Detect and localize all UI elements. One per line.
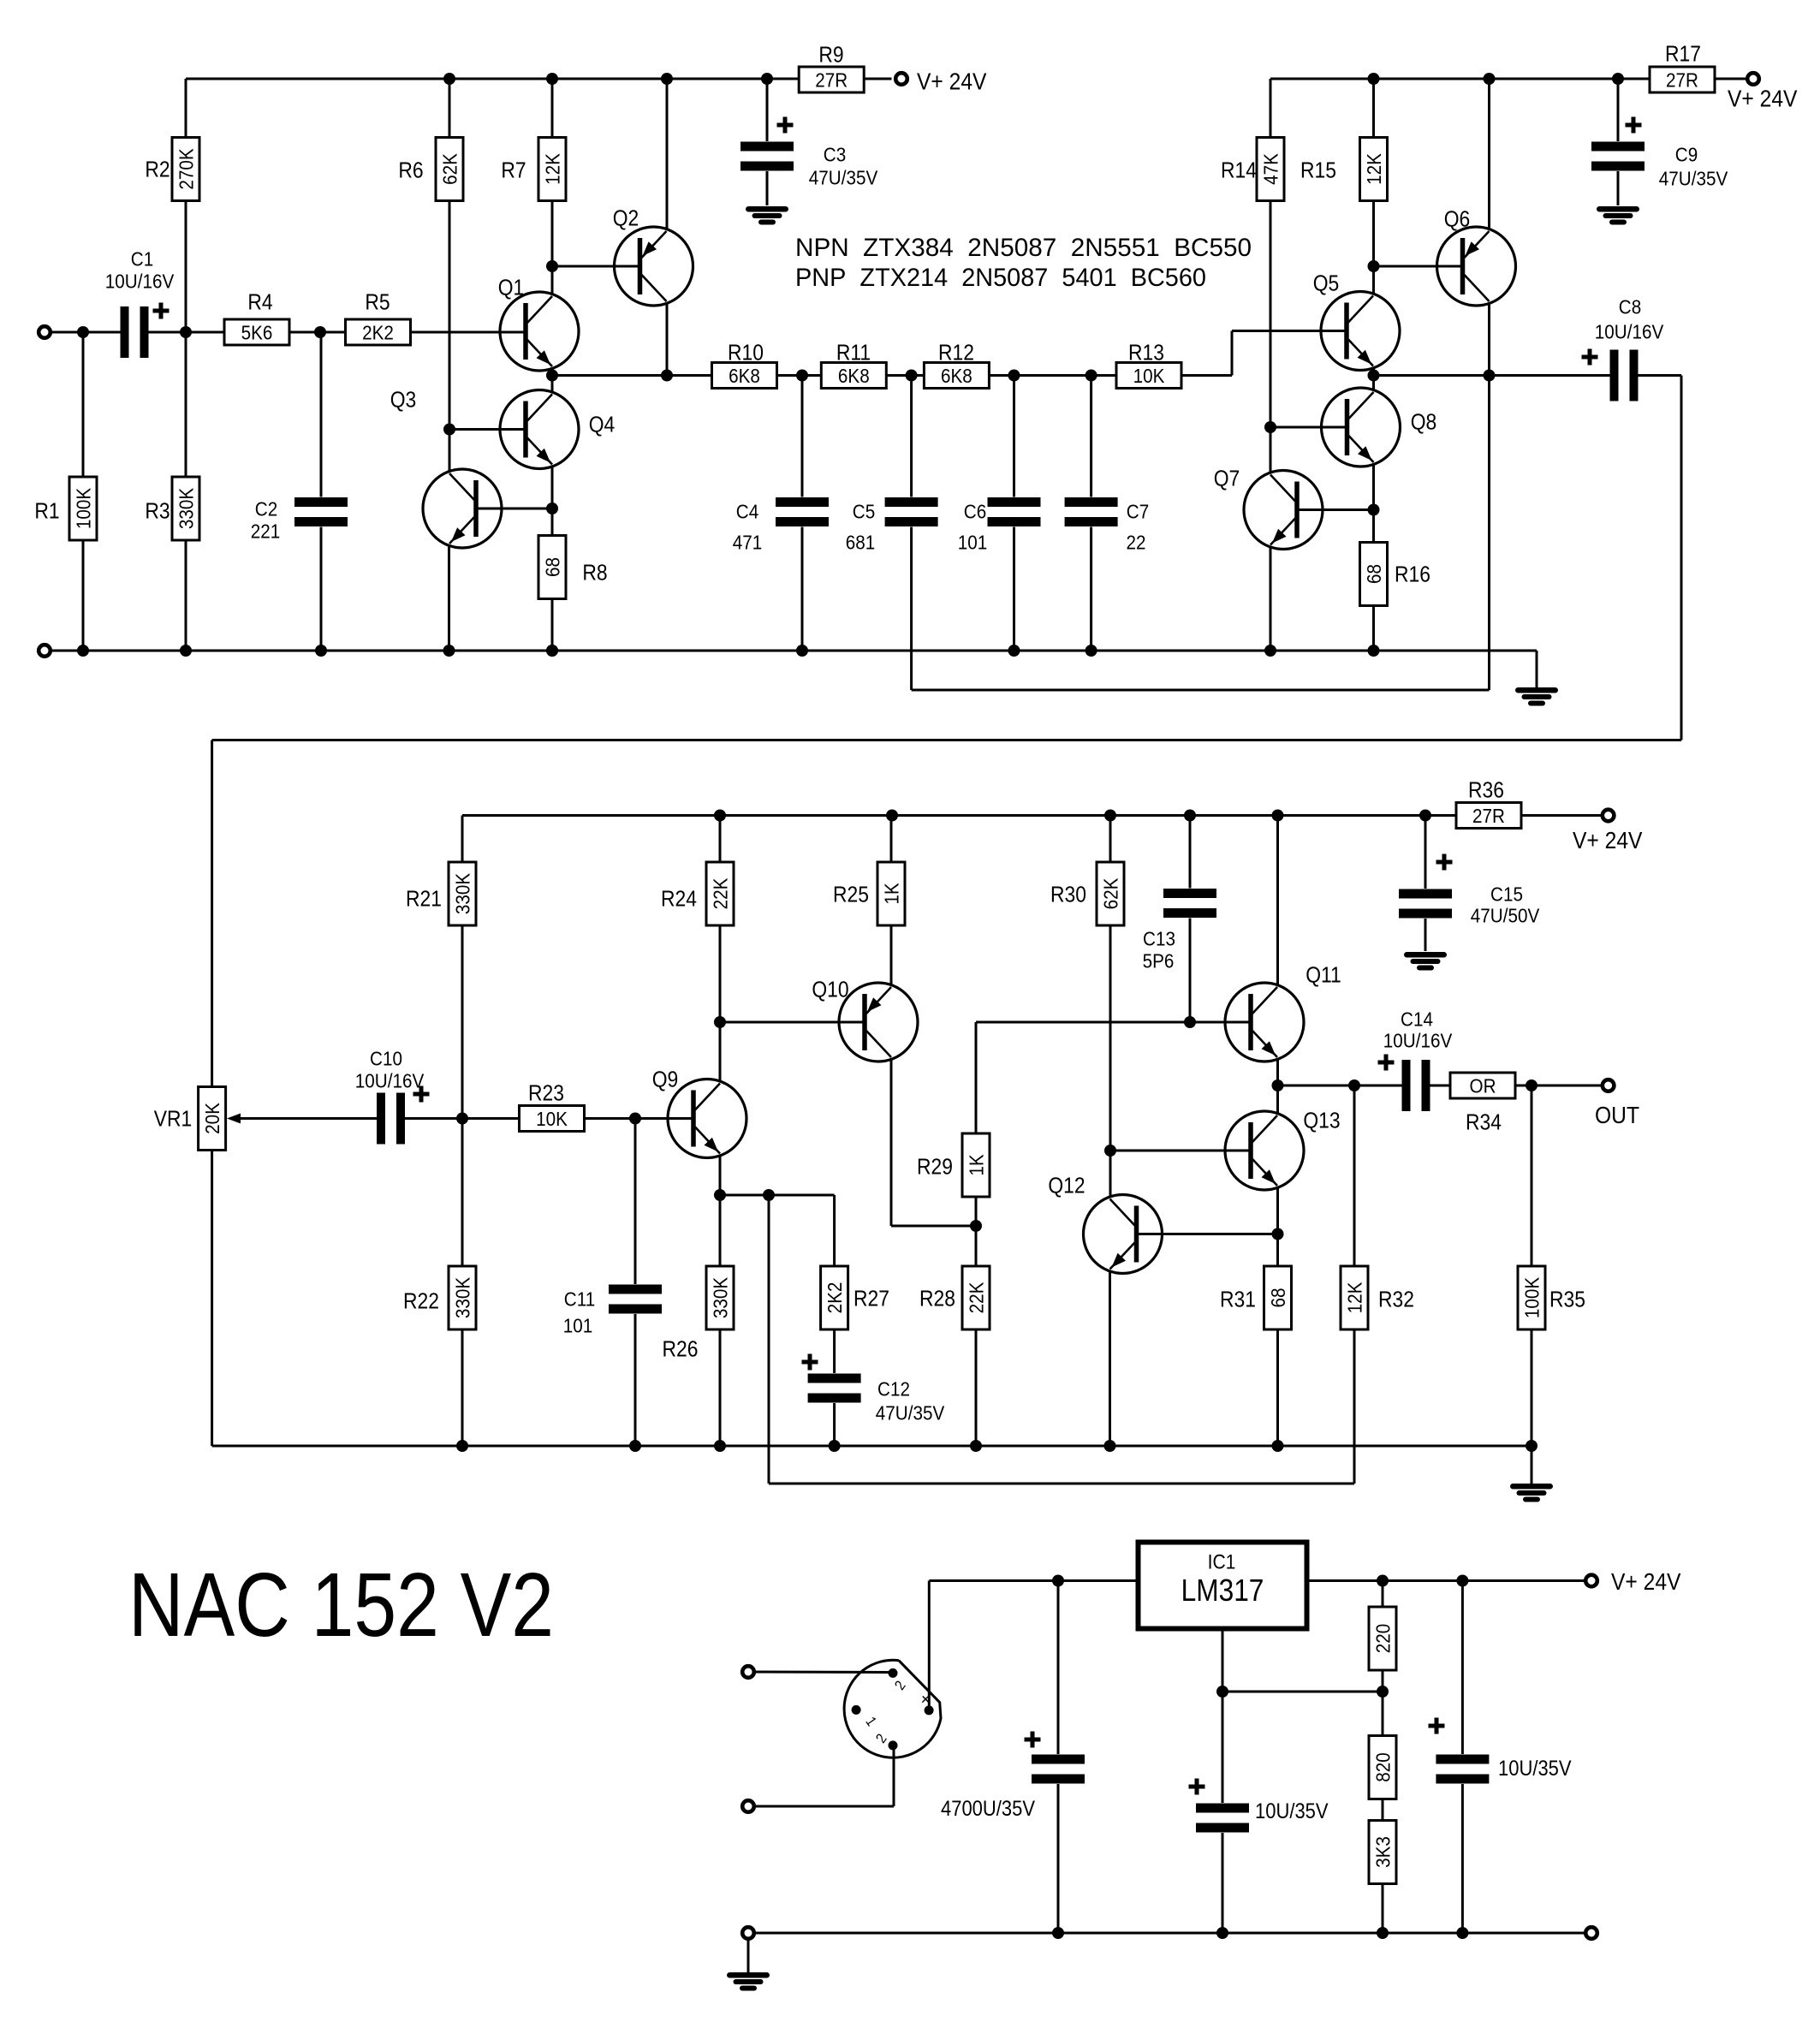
svg-text:R28: R28 bbox=[919, 1287, 955, 1311]
svg-text:47U/35V: 47U/35V bbox=[1659, 167, 1728, 190]
svg-text:C4: C4 bbox=[736, 500, 758, 523]
svg-text:C11: C11 bbox=[564, 1288, 595, 1311]
svg-text:R15: R15 bbox=[1300, 158, 1336, 183]
svg-text:47U/35V: 47U/35V bbox=[876, 1401, 945, 1424]
svg-text:Q7: Q7 bbox=[1214, 467, 1240, 491]
svg-text:C5: C5 bbox=[853, 500, 875, 523]
svg-text:5P6: 5P6 bbox=[1143, 949, 1175, 972]
svg-text:Q2: Q2 bbox=[613, 206, 639, 231]
svg-text:R32: R32 bbox=[1378, 1288, 1414, 1312]
svg-text:R31: R31 bbox=[1220, 1288, 1256, 1312]
svg-text:22K: 22K bbox=[965, 1282, 988, 1313]
svg-text:VR1: VR1 bbox=[154, 1107, 192, 1132]
svg-text:Q6: Q6 bbox=[1444, 207, 1471, 232]
svg-text:R3: R3 bbox=[145, 499, 170, 524]
svg-text:C13: C13 bbox=[1143, 927, 1175, 950]
svg-text:R2: R2 bbox=[145, 158, 170, 182]
svg-text:R30: R30 bbox=[1050, 883, 1086, 907]
svg-text:27R: 27R bbox=[1472, 805, 1505, 828]
svg-text:R1: R1 bbox=[34, 499, 59, 524]
svg-text:C14: C14 bbox=[1401, 1008, 1433, 1031]
svg-text:C8: C8 bbox=[1619, 295, 1641, 318]
svg-text:101: 101 bbox=[563, 1314, 592, 1337]
svg-text:C2: C2 bbox=[255, 497, 277, 520]
svg-text:LM317: LM317 bbox=[1181, 1573, 1264, 1608]
svg-text:6K8: 6K8 bbox=[941, 365, 972, 388]
svg-text:20K: 20K bbox=[201, 1103, 224, 1134]
svg-text:62K: 62K bbox=[1099, 877, 1122, 909]
svg-text:R4: R4 bbox=[247, 290, 272, 315]
svg-text:Q13: Q13 bbox=[1303, 1109, 1340, 1133]
svg-text:R11: R11 bbox=[836, 341, 871, 366]
svg-text:330K: 330K bbox=[451, 873, 474, 915]
svg-text:47U/50V: 47U/50V bbox=[1471, 904, 1540, 927]
svg-text:C9: C9 bbox=[1675, 143, 1698, 166]
svg-text:R29: R29 bbox=[917, 1155, 953, 1180]
svg-text:R9: R9 bbox=[818, 43, 843, 68]
svg-text:V+ 24V: V+ 24V bbox=[1611, 1568, 1681, 1596]
svg-text:100K: 100K bbox=[72, 488, 95, 530]
svg-text:10U/16V: 10U/16V bbox=[105, 270, 175, 293]
svg-text:12K: 12K bbox=[1343, 1282, 1366, 1313]
svg-text:R22: R22 bbox=[403, 1289, 439, 1314]
svg-text:22K: 22K bbox=[709, 877, 732, 909]
svg-text:22: 22 bbox=[1126, 531, 1145, 554]
svg-text:10U/16V: 10U/16V bbox=[1383, 1029, 1453, 1052]
svg-text:6K8: 6K8 bbox=[729, 365, 760, 388]
svg-text:Q3: Q3 bbox=[390, 388, 417, 413]
svg-text:R36: R36 bbox=[1468, 778, 1504, 803]
svg-text:NPN ZTX384 2N5087 2N5551 B: NPN ZTX384 2N5087 2N5551 BC550 bbox=[795, 234, 1252, 262]
svg-text:27R: 27R bbox=[1666, 68, 1698, 92]
svg-text:2K2: 2K2 bbox=[362, 321, 394, 344]
svg-text:OR: OR bbox=[1469, 1074, 1496, 1097]
svg-text:C12: C12 bbox=[877, 1377, 910, 1401]
svg-text:220: 220 bbox=[1371, 1624, 1395, 1653]
svg-text:5K6: 5K6 bbox=[241, 321, 273, 344]
svg-text:471: 471 bbox=[733, 531, 762, 554]
svg-text:68: 68 bbox=[1363, 564, 1386, 584]
svg-text:V+ 24V: V+ 24V bbox=[1573, 827, 1643, 854]
svg-text:R7: R7 bbox=[501, 158, 526, 183]
svg-text:R14: R14 bbox=[1221, 158, 1257, 183]
svg-text:C7: C7 bbox=[1127, 500, 1149, 523]
svg-text:R12: R12 bbox=[938, 341, 974, 366]
svg-text:820: 820 bbox=[1371, 1752, 1395, 1781]
svg-text:R25: R25 bbox=[833, 883, 869, 907]
svg-text:C6: C6 bbox=[964, 500, 986, 523]
svg-text:R8: R8 bbox=[582, 561, 607, 586]
svg-text:330K: 330K bbox=[451, 1277, 474, 1319]
svg-text:68: 68 bbox=[541, 557, 564, 577]
svg-text:330K: 330K bbox=[175, 488, 198, 530]
svg-text:R23: R23 bbox=[528, 1081, 564, 1106]
svg-text:62K: 62K bbox=[438, 153, 461, 185]
svg-text:100K: 100K bbox=[1520, 1277, 1543, 1319]
svg-text:4700U/35V: 4700U/35V bbox=[941, 1797, 1035, 1821]
svg-text:681: 681 bbox=[846, 531, 875, 554]
svg-text:10K: 10K bbox=[536, 1108, 568, 1131]
svg-text:R21: R21 bbox=[406, 887, 442, 912]
svg-text:221: 221 bbox=[251, 520, 280, 543]
svg-text:270K: 270K bbox=[175, 148, 198, 190]
svg-text:1K: 1K bbox=[880, 883, 903, 905]
svg-text:10U/16V: 10U/16V bbox=[1595, 320, 1664, 343]
svg-text:2K2: 2K2 bbox=[824, 1282, 847, 1314]
svg-text:R35: R35 bbox=[1549, 1288, 1585, 1312]
svg-text:R27: R27 bbox=[853, 1287, 889, 1311]
svg-text:V+ 24V: V+ 24V bbox=[917, 68, 987, 95]
svg-text:R34: R34 bbox=[1466, 1110, 1502, 1135]
svg-text:10K: 10K bbox=[1133, 365, 1165, 388]
svg-text:V+ 24V: V+ 24V bbox=[1728, 85, 1798, 112]
svg-text:C15: C15 bbox=[1490, 883, 1523, 906]
svg-text:1K: 1K bbox=[965, 1154, 988, 1176]
svg-text:R16: R16 bbox=[1395, 562, 1430, 587]
svg-text:12K: 12K bbox=[1363, 153, 1386, 185]
svg-text:101: 101 bbox=[958, 531, 987, 554]
svg-text:Q10: Q10 bbox=[812, 978, 848, 1002]
svg-text:PNP ZTX214 2N5087 5401 BC5: PNP ZTX214 2N5087 5401 BC560 bbox=[795, 264, 1206, 292]
svg-text:IC1: IC1 bbox=[1208, 1550, 1236, 1573]
svg-text:R13: R13 bbox=[1128, 341, 1164, 366]
svg-text:Q1: Q1 bbox=[498, 276, 525, 300]
svg-text:3K3: 3K3 bbox=[1371, 1836, 1395, 1868]
svg-text:Q12: Q12 bbox=[1048, 1174, 1085, 1198]
svg-text:47K: 47K bbox=[1259, 153, 1282, 185]
svg-text:R10: R10 bbox=[728, 341, 764, 366]
svg-text:10U/35V: 10U/35V bbox=[1255, 1799, 1329, 1823]
svg-text:C10: C10 bbox=[370, 1047, 402, 1070]
svg-text:R26: R26 bbox=[663, 1337, 699, 1362]
svg-text:Q9: Q9 bbox=[652, 1067, 679, 1092]
svg-text:R6: R6 bbox=[398, 158, 423, 183]
svg-text:NAC 152 V2: NAC 152 V2 bbox=[128, 1555, 554, 1656]
svg-text:Q5: Q5 bbox=[1313, 271, 1340, 296]
svg-text:OUT: OUT bbox=[1595, 1102, 1639, 1129]
svg-text:27R: 27R bbox=[815, 68, 848, 92]
svg-text:C3: C3 bbox=[824, 143, 846, 166]
svg-text:47U/35V: 47U/35V bbox=[809, 166, 878, 189]
svg-text:R17: R17 bbox=[1665, 42, 1701, 67]
svg-text:330K: 330K bbox=[709, 1277, 732, 1319]
svg-text:Q11: Q11 bbox=[1306, 963, 1341, 988]
svg-text:6K8: 6K8 bbox=[838, 365, 870, 388]
svg-text:Q4: Q4 bbox=[589, 413, 616, 437]
svg-text:C1: C1 bbox=[131, 247, 153, 271]
svg-text:10U/35V: 10U/35V bbox=[1498, 1757, 1572, 1781]
svg-text:10U/16V: 10U/16V bbox=[355, 1069, 425, 1092]
svg-text:R24: R24 bbox=[661, 887, 697, 912]
svg-text:Q8: Q8 bbox=[1411, 410, 1437, 435]
svg-text:R5: R5 bbox=[365, 290, 390, 315]
svg-text:12K: 12K bbox=[541, 153, 564, 185]
svg-text:68: 68 bbox=[1267, 1288, 1290, 1307]
